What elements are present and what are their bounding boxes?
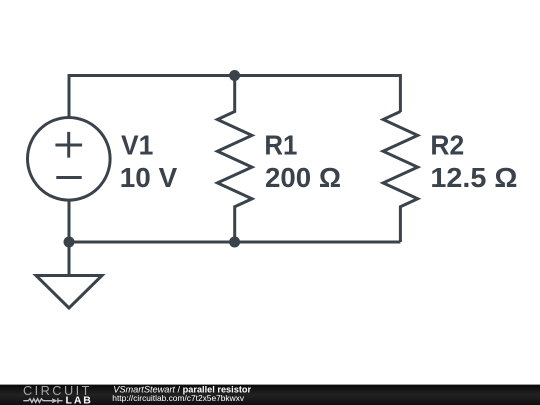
svg-text:LAB: LAB [66, 395, 93, 405]
svg-text:12.5 Ω: 12.5 Ω [430, 161, 517, 193]
svg-text:http://circuitlab.com/c7t2x5e7: http://circuitlab.com/c7t2x5e7bkwxv [112, 393, 245, 403]
svg-text:V1: V1 [121, 129, 153, 161]
svg-text:200 Ω: 200 Ω [265, 161, 341, 193]
svg-text:R1: R1 [264, 129, 297, 161]
svg-text:10 V: 10 V [120, 161, 178, 193]
svg-text:R2: R2 [430, 129, 464, 161]
